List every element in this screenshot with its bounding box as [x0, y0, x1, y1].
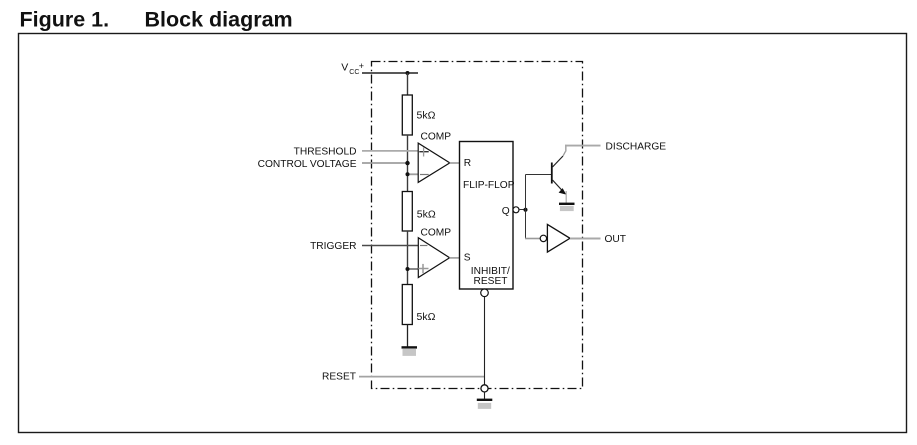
wire VCC to R1 [407, 73, 409, 95]
svg-text:FLIP-FLOP: FLIP-FLOP [463, 180, 515, 191]
svg-text:THRESHOLD: THRESHOLD [294, 147, 357, 158]
wire VCC [362, 72, 418, 74]
svg-text:R: R [464, 158, 471, 169]
wire RESET [359, 376, 485, 378]
op-amp COMP1 threshold comparator [418, 143, 450, 182]
ground G3 (reset pin) [477, 400, 493, 409]
resistor R2 5k [402, 192, 412, 232]
wire R3 to ground [407, 325, 409, 347]
wire CONTROL VOLTAGE [362, 162, 408, 164]
wire node to COMP1 minus [408, 173, 419, 175]
plus sign COMP1 [419, 151, 428, 153]
wire OUT [570, 238, 601, 240]
wire THRESHOLD [362, 150, 419, 152]
plus sign COMP2 [418, 264, 428, 273]
dash-dot device boundary [372, 62, 583, 389]
svg-text:5kΩ: 5kΩ [417, 311, 436, 323]
wire Q vertical [525, 175, 527, 240]
junction control-voltage node [405, 161, 409, 165]
resistor R1 5k [402, 95, 412, 135]
node VCC label [341, 61, 364, 76]
svg-text:DISCHARGE: DISCHARGE [606, 142, 667, 153]
junction COMP1 minus node [406, 172, 410, 176]
wire COMP2 output to S [449, 257, 459, 259]
svg-text:Figure 1.: Figure 1. [20, 8, 110, 32]
wire reset vertical [484, 297, 486, 385]
svg-text:OUT: OUT [605, 234, 627, 245]
svg-text:COMP: COMP [421, 132, 452, 143]
wire TRIGGER [362, 245, 419, 247]
wire R2 to R3 [407, 231, 409, 285]
bubble Q output [513, 207, 519, 213]
wire Q bubble to node [519, 209, 526, 211]
wire node to COMP2 plus [408, 268, 419, 270]
svg-text:RESET: RESET [322, 371, 356, 382]
wire Q to inverter [525, 238, 540, 240]
transistor Q1 discharge [552, 145, 567, 203]
svg-text:5kΩ: 5kΩ [417, 110, 436, 122]
svg-text:TRIGGER: TRIGGER [310, 241, 356, 252]
pad reset pin circle [481, 385, 488, 392]
bubble inverter input [540, 235, 546, 241]
svg-text:5kΩ: 5kΩ [417, 208, 436, 220]
wire DISCHARGE [565, 145, 601, 147]
resistor R3 5k [402, 285, 412, 325]
ground G1 (transistor emitter) [559, 204, 575, 211]
svg-text:Block diagram: Block diagram [145, 8, 293, 32]
svg-text:Q: Q [502, 206, 510, 217]
svg-text:RESET: RESET [474, 276, 508, 287]
svg-text:COMP: COMP [421, 228, 452, 239]
op-amp COMP2 trigger comparator [418, 238, 449, 278]
minus sign COMP1 [420, 174, 429, 176]
label INHIBIT/RESET [471, 266, 510, 287]
junction COMP2 plus node [406, 267, 410, 271]
wire Q to transistor base [526, 174, 552, 176]
svg-text:CONTROL VOLTAGE: CONTROL VOLTAGE [258, 159, 357, 170]
svg-text:S: S [464, 253, 471, 264]
wire reset pin to ground [484, 392, 486, 399]
svg-text:+: + [359, 61, 364, 71]
minus sign COMP2 [420, 245, 427, 247]
bubble flip-flop reset input [481, 289, 489, 297]
junction Q node [524, 208, 528, 212]
svg-text:V: V [341, 61, 348, 73]
flip-flop U1 [460, 142, 514, 290]
ground G2 (resistor chain) [402, 347, 418, 356]
inverter U2 output buffer [547, 224, 570, 252]
junction VCC node [406, 71, 410, 75]
wire R1 to R2 [407, 135, 409, 192]
wire COMP1 output to R [450, 162, 460, 164]
